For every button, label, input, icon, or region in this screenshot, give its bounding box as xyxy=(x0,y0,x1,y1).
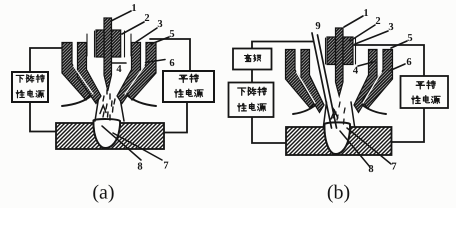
svg-text:1: 1 xyxy=(131,3,136,14)
svg-text:(b): (b) xyxy=(327,182,350,204)
svg-text:9: 9 xyxy=(315,21,320,32)
svg-text:1: 1 xyxy=(363,8,368,19)
svg-text:(a): (a) xyxy=(92,182,114,204)
svg-text:5: 5 xyxy=(407,33,412,44)
svg-text:6: 6 xyxy=(406,57,411,68)
svg-text:7: 7 xyxy=(391,162,396,173)
svg-text:2: 2 xyxy=(375,16,380,27)
svg-text:8: 8 xyxy=(137,162,142,173)
svg-text:3: 3 xyxy=(157,19,162,30)
svg-text:3: 3 xyxy=(388,22,393,33)
svg-text:4: 4 xyxy=(353,66,359,77)
svg-text:2: 2 xyxy=(144,13,149,24)
svg-text:5: 5 xyxy=(169,29,174,40)
svg-text:8: 8 xyxy=(368,164,373,175)
svg-text:4: 4 xyxy=(116,64,122,75)
svg-text:6: 6 xyxy=(169,58,174,69)
svg-text:7: 7 xyxy=(163,161,168,172)
